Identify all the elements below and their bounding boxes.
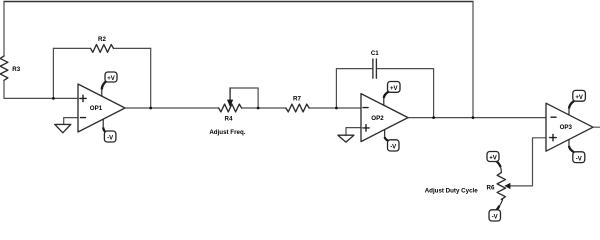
wire: left vertical below R3 to OP1 + input (4, 80, 78, 98)
op-amp OP3 triangle (546, 103, 593, 151)
junction dot top rail tap (472, 116, 475, 119)
power flag box +V (OP3) (573, 90, 586, 101)
resistor R7 (286, 104, 309, 112)
power flag box +V (R6) (487, 152, 499, 162)
power flag leader R6 +V (496, 161, 502, 173)
potentiometer R4 wiper arrow shaft (229, 88, 231, 100)
wire: OP2 ground branch (346, 128, 361, 136)
power flag leader OP1 -V (103, 119, 106, 133)
OP3 plus input symbol (550, 137, 556, 139)
svg-text:OP1: OP1 (90, 105, 103, 112)
svg-text:+V: +V (575, 95, 583, 101)
svg-text:R7: R7 (293, 96, 301, 103)
svg-text:C1: C1 (371, 50, 379, 57)
power flag leader OP1 +V (102, 81, 106, 96)
potentiometer R6 wiper arrowhead (504, 183, 510, 189)
power flag leader OP3 -V (569, 140, 574, 153)
junction dot C1 left / OP2 input (335, 107, 338, 110)
op-amp OP2 triangle (361, 94, 408, 142)
svg-text:-V: -V (492, 215, 498, 221)
svg-text:+V: +V (107, 76, 115, 82)
wire: OP3 output (593, 126, 600, 128)
power flag box -V (OP2) (388, 140, 400, 151)
wire: OP1 output to R4 (125, 107, 219, 109)
svg-text:Adjust Duty Cycle: Adjust Duty Cycle (425, 187, 479, 194)
power flag box +V (OP2) (388, 82, 401, 93)
power flag leader OP2 -V (385, 130, 389, 142)
potentiometer R6 body (497, 173, 505, 200)
wire: C1 feedback right segment (376, 69, 433, 118)
junction dot R4 right terminal (257, 107, 260, 110)
svg-text:OP2: OP2 (371, 115, 384, 122)
svg-text:-V: -V (390, 145, 396, 151)
wire: top feedback rail (4, 1, 473, 3)
svg-text:R4: R4 (225, 115, 233, 122)
svg-text:+V: +V (489, 156, 497, 162)
power flag box -V (OP1) (104, 131, 116, 142)
svg-text:R6: R6 (487, 185, 495, 192)
wire: OP1 ground branch (64, 118, 78, 125)
potentiometer R4 body (219, 104, 242, 112)
wire: R4 to R7 (242, 107, 286, 109)
power flag leader R6 -V (496, 199, 503, 211)
power flag box -V (OP3) (573, 152, 585, 163)
wire: OP3 + input to R6 wiper (509, 138, 546, 186)
junction dot C1 right / OP2 output (432, 116, 435, 119)
wire: R2 feedback right vertical (150, 48, 152, 108)
svg-text:OP3: OP3 (560, 124, 573, 131)
svg-text:+V: +V (390, 86, 398, 92)
op-amp OP1 triangle (78, 84, 125, 132)
OP3 minus input symbol (551, 116, 556, 118)
wire: left vertical above R3 (3, 2, 5, 57)
svg-text:Adjust Freq.: Adjust Freq. (209, 129, 245, 136)
wire: OP2 output to OP3 inverting input (408, 117, 546, 119)
OP2 plus input symbol (363, 127, 369, 129)
wire: feedback tap vertical to top rail (472, 2, 474, 118)
ground for OP2 (338, 135, 354, 142)
svg-text:-V: -V (576, 156, 582, 162)
capacitor C1 left plate (372, 59, 374, 78)
svg-text:R3: R3 (12, 66, 20, 73)
capacitor C1 right plate (375, 59, 377, 78)
power flag box +V (OP1) (105, 72, 117, 82)
resistor R2 (91, 45, 114, 53)
power flag leader OP2 +V (384, 92, 389, 106)
junction dot OP1 + input / feedback (52, 97, 55, 100)
potentiometer R4 wiper arrowhead (227, 100, 233, 108)
OP2 minus input symbol (363, 107, 368, 109)
wire: R7 to OP2 inverting input (309, 107, 361, 109)
OP1 minus input symbol (81, 117, 86, 119)
wire: C1 feedback left vertical (336, 69, 373, 108)
wire: R2 feedback left vertical (52, 48, 54, 98)
power flag box -V (R6) (489, 210, 501, 221)
wire: R2 feedback top left segment (53, 47, 90, 49)
ground for OP1 (55, 124, 71, 132)
wire: R2 feedback top right segment (114, 47, 151, 49)
power flag leader OP3 +V (569, 101, 574, 115)
OP1 plus input symbol (80, 97, 86, 99)
svg-text:-V: -V (107, 136, 113, 142)
resistor R3 (0, 56, 8, 80)
junction dot OP1 output / R2 feedback (149, 107, 152, 110)
wire: R4 wiper to right terminal loop (230, 88, 258, 108)
svg-text:R2: R2 (98, 36, 106, 43)
